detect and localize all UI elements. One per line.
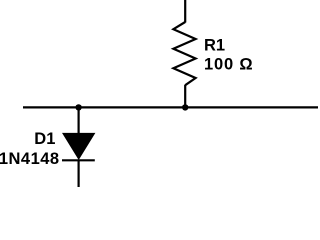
svg-text:100 Ω: 100 Ω: [204, 56, 253, 74]
diode D1 anode triangle: [63, 133, 95, 159]
svg-text:D1: D1: [34, 130, 55, 148]
svg-text:R1: R1: [204, 36, 225, 54]
wire: R1 bottom lead: [184, 85, 186, 108]
wire: horizontal net: [23, 106, 318, 108]
junction: net to R1: [182, 104, 188, 110]
junction: net to D1: [75, 104, 81, 110]
diode D1 cathode bar: [62, 159, 95, 161]
svg-text:1N4148: 1N4148: [0, 150, 60, 168]
wire: R1 top lead (to top edge): [184, 0, 186, 23]
wire: D1 bottom lead (to bottom edge): [77, 160, 79, 187]
wire: D1 top lead: [77, 107, 79, 134]
resistor R1: [173, 22, 195, 85]
